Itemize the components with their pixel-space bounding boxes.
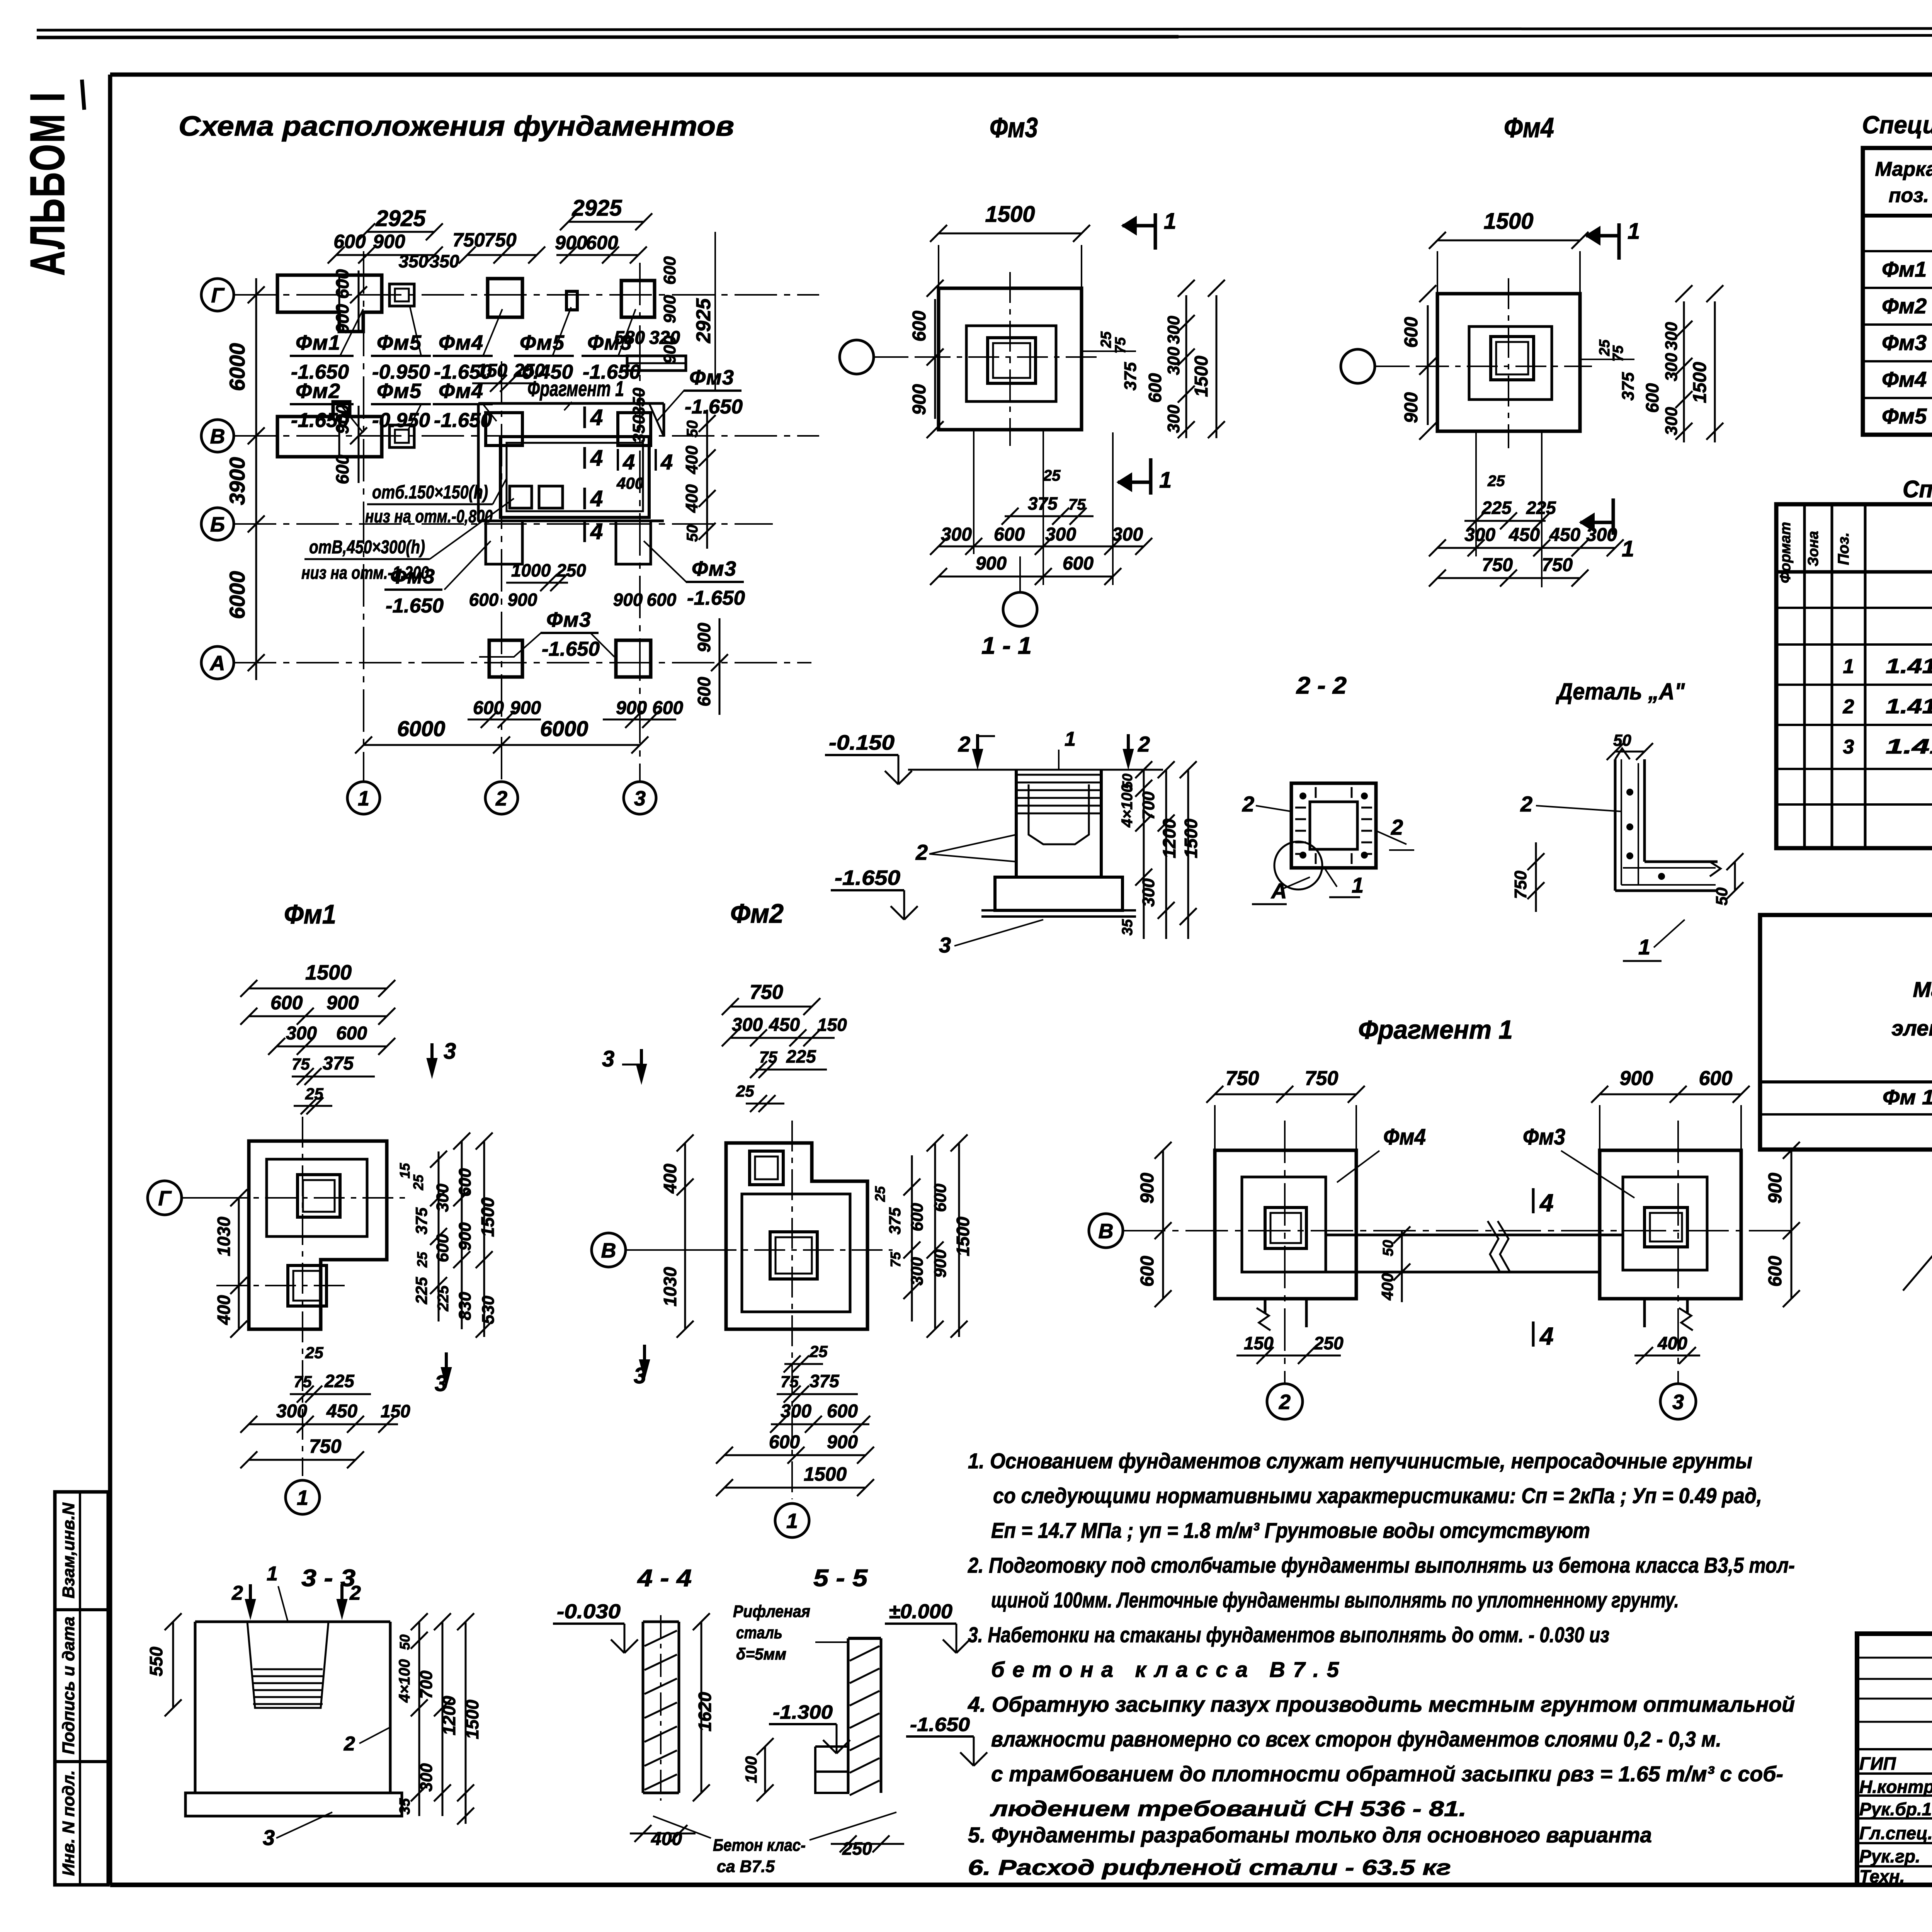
svg-text:530: 530	[479, 1296, 498, 1324]
plan bottom dim 6000 6000	[355, 716, 648, 753]
svg-text:са В7.5: са В7.5	[717, 1857, 775, 1876]
svg-text:6000: 6000	[225, 343, 249, 391]
svg-text:Н.контр.: Н.контр.	[1859, 1777, 1932, 1797]
svg-text:Фм3: Фм3	[546, 608, 591, 631]
svg-text:750: 750	[1482, 555, 1513, 575]
fragment left foundation Фм4	[1215, 1150, 1356, 1299]
Фм2 axis В circle	[592, 1233, 724, 1267]
svg-text:6000: 6000	[225, 571, 249, 619]
svg-text:-1.650: -1.650	[434, 409, 492, 432]
section marks 2	[958, 732, 995, 767]
svg-text:225: 225	[435, 1285, 452, 1311]
svg-text:900: 900	[660, 295, 679, 323]
svg-text:Поз.: Поз.	[1835, 532, 1852, 565]
svg-text:Фм1: Фм1	[284, 899, 336, 929]
axis 1	[347, 251, 380, 814]
svg-text:375: 375	[810, 1371, 840, 1391]
svg-text:600: 600	[1765, 1256, 1786, 1287]
svg-text:75: 75	[294, 1372, 312, 1391]
svg-text:400: 400	[682, 484, 701, 513]
svg-text:1. Основанием фундаментов сл: 1. Основанием фундаментов служат непучин…	[968, 1449, 1752, 1473]
svg-text:Фм1: Фм1	[1882, 257, 1927, 281]
svg-text:Подпись и дата: Подпись и дата	[59, 1617, 78, 1755]
fragment right foundation Фм3	[1600, 1150, 1741, 1299]
title Схема расположения фундаментов	[179, 111, 734, 142]
svg-text:1500: 1500	[305, 961, 352, 984]
svg-text:2: 2	[349, 1582, 361, 1604]
svg-text:3: 3	[263, 1825, 275, 1850]
svg-text:225: 225	[412, 1277, 430, 1304]
svg-text:А: А	[1270, 879, 1287, 903]
row А columns	[489, 640, 651, 677]
svg-text:50: 50	[684, 420, 701, 438]
fragment 14 marks	[1533, 1188, 1554, 1217]
Фм3 nested squares	[920, 272, 1101, 446]
Фм3 labels around fragment	[657, 366, 743, 421]
svg-text:Деталь „А": Деталь „А"	[1555, 679, 1685, 704]
svg-text:300: 300	[908, 1257, 927, 1286]
svg-text:2: 2	[1242, 792, 1254, 816]
svg-text:300: 300	[1045, 524, 1076, 545]
svg-text:элемента: элемента	[1891, 1016, 1932, 1040]
svg-text:900: 900	[508, 590, 537, 610]
label Фм3 (detail title)	[990, 112, 1038, 143]
Фм4 foundation detail	[1341, 209, 1723, 587]
svg-text:300: 300	[1164, 405, 1183, 433]
svg-text:600: 600	[333, 231, 366, 252]
svg-text:1500: 1500	[985, 202, 1035, 227]
svg-text:750: 750	[1226, 1067, 1259, 1090]
svg-text:25: 25	[1043, 467, 1061, 484]
svg-text:с трамбованием до плотности: с трамбованием до плотности обратной зас…	[991, 1762, 1783, 1786]
svg-text:600: 600	[827, 1401, 858, 1422]
svg-text:600: 600	[1699, 1067, 1733, 1090]
svg-text:900: 900	[456, 1222, 474, 1251]
dim 150 250 above fragment	[472, 361, 545, 392]
svg-text:Фм3: Фм3	[689, 366, 734, 389]
svg-text:-1.650: -1.650	[542, 638, 600, 660]
Фм4 nested squares	[1418, 278, 1592, 448]
svg-text:375: 375	[1121, 362, 1140, 391]
svg-text:Фм2: Фм2	[1882, 294, 1927, 318]
svg-text:2: 2	[958, 732, 970, 756]
svg-text:600: 600	[332, 269, 352, 299]
svg-text:1: 1	[1622, 536, 1634, 561]
svg-text:250: 250	[556, 560, 586, 580]
svg-text:1000: 1000	[511, 560, 551, 580]
svg-text:Техн.: Техн.	[1859, 1866, 1905, 1886]
svg-text:300: 300	[941, 524, 972, 545]
svg-text:700: 700	[1139, 791, 1158, 820]
svg-text:2: 2	[1520, 792, 1532, 816]
svg-text:2: 2	[344, 1733, 355, 1755]
svg-text:900: 900	[1401, 392, 1422, 423]
svg-text:Фм5: Фм5	[1882, 404, 1927, 428]
foundation layout plan	[201, 196, 819, 814]
svg-text:5 - 5: 5 - 5	[813, 1565, 868, 1592]
svg-text:А: А	[209, 651, 225, 675]
svg-text:низ на отм.-0,800: низ на отм.-0,800	[365, 506, 493, 526]
svg-text:25: 25	[809, 1342, 828, 1361]
svg-text:250: 250	[842, 1838, 872, 1859]
svg-text:75: 75	[888, 1252, 903, 1267]
svg-text:4: 4	[1539, 1322, 1554, 1350]
svg-text:750: 750	[484, 229, 517, 251]
svg-text:1500: 1500	[1483, 209, 1533, 234]
svg-text:1: 1	[786, 1509, 798, 1532]
svg-text:900: 900	[909, 384, 930, 415]
svg-text:75: 75	[292, 1055, 310, 1073]
title block	[1857, 1634, 1932, 1905]
svg-text:2 - 2: 2 - 2	[1296, 672, 1347, 699]
svg-text:Рифленая: Рифленая	[733, 1602, 810, 1621]
svg-text:300: 300	[1662, 407, 1681, 435]
section 1-1	[825, 556, 1201, 957]
svg-text:Фм4: Фм4	[1504, 112, 1554, 143]
svg-text:600: 600	[270, 992, 303, 1014]
Фм2 foundation detail	[592, 898, 973, 1537]
svg-text:250: 250	[1313, 1333, 1344, 1353]
svg-text:Спецификация фундаментов Фм: Спецификация фундаментов Фм 1 ÷ Фм 4	[1903, 476, 1932, 503]
svg-text:Фм4: Фм4	[1882, 367, 1927, 391]
svg-text:750: 750	[1305, 1067, 1338, 1090]
svg-text:Фм3: Фм3	[587, 331, 632, 354]
svg-text:2: 2	[495, 787, 507, 810]
svg-text:600: 600	[769, 1432, 800, 1452]
svg-text:900: 900	[1620, 1067, 1653, 1090]
fragment right dims 900 600	[1765, 1142, 1800, 1307]
svg-text:1.410-3 вып. 1: 1.410-3 вып. 1	[1886, 735, 1932, 758]
Фм1 left dim 1030 400	[214, 1189, 247, 1338]
section 3-3	[146, 1563, 482, 1850]
svg-text:900: 900	[616, 698, 647, 718]
svg-text:900: 900	[555, 232, 587, 253]
plan left rotated dims	[332, 269, 367, 484]
fragment bottom dims 150 250 400	[1236, 1333, 1344, 1364]
label 1-1	[981, 633, 1032, 659]
svg-text:2: 2	[1138, 732, 1150, 756]
dim 1000 250	[506, 560, 586, 591]
svg-text:В: В	[1099, 1219, 1114, 1243]
svg-text:900: 900	[332, 404, 352, 434]
axis Б	[201, 508, 773, 540]
svg-text:Зона: Зона	[1805, 531, 1821, 566]
svg-text:-0.150: -0.150	[829, 731, 895, 754]
svg-text:Марка,: Марка,	[1875, 158, 1932, 180]
svg-text:600: 600	[332, 454, 352, 484]
axis circle below Фм3	[1003, 556, 1037, 626]
svg-text:750: 750	[452, 229, 485, 251]
svg-text:900: 900	[660, 335, 679, 364]
svg-text:3: 3	[602, 1046, 614, 1071]
svg-text:25: 25	[414, 1252, 430, 1268]
svg-text:-1.650: -1.650	[687, 587, 745, 609]
fragment axis 3	[1660, 1121, 1696, 1419]
svg-text:2: 2	[915, 840, 928, 864]
svg-text:100: 100	[742, 1756, 760, 1783]
svg-text:600: 600	[1145, 373, 1165, 403]
svg-text:людением требований СН 536: людением требований СН 536 - 81.	[990, 1796, 1466, 1821]
svg-text:Фм5: Фм5	[377, 379, 422, 403]
Фм1 plan shape (row Г)	[277, 275, 382, 332]
svg-text:2: 2	[1391, 815, 1403, 839]
svg-text:±0.000: ±0.000	[889, 1600, 952, 1623]
svg-text:1500: 1500	[478, 1197, 498, 1237]
svg-text:600: 600	[469, 590, 499, 610]
label Фм4 (detail title)	[1504, 112, 1554, 143]
svg-text:450: 450	[1549, 525, 1580, 545]
axis circle Фм3	[840, 340, 939, 374]
svg-text:Фрагмент 1: Фрагмент 1	[1358, 1015, 1513, 1044]
svg-text:-1.650: -1.650	[835, 866, 900, 889]
axis circle Фм4	[1341, 349, 1437, 383]
Фм4 section mark 1 bottom	[1580, 498, 1634, 561]
svg-text:поз.: поз.	[1889, 184, 1929, 207]
fragment labels Фм4 Фм3	[1337, 1124, 1426, 1182]
Фм2 top dims	[722, 981, 847, 1112]
svg-text:1620: 1620	[695, 1692, 715, 1731]
svg-text:300: 300	[1464, 525, 1495, 545]
hatched element 580x320	[614, 328, 686, 443]
svg-text:1: 1	[267, 1563, 278, 1585]
fragment top dims	[1206, 1067, 1750, 1150]
table Спецификация фундаментов	[1776, 504, 1932, 848]
svg-text:400: 400	[1378, 1273, 1396, 1301]
svg-text:2925: 2925	[571, 196, 622, 221]
axis Г	[201, 279, 819, 311]
svg-text:6. Расход рифленой стали: 6. Расход рифленой стали - 63.5 кг	[968, 1855, 1451, 1879]
Фм1 top dims	[240, 961, 395, 1114]
svg-text:900: 900	[931, 1249, 950, 1278]
svg-text:Фм1: Фм1	[296, 331, 340, 354]
svg-text:Г: Г	[158, 1187, 172, 1210]
svg-text:отВ,450×300(h): отВ,450×300(h)	[309, 537, 425, 558]
svg-text:Спецификация элементов к схеме: Спецификация элементов к схеме расположе…	[1862, 111, 1932, 139]
Фм3 section mark 1 top	[1122, 209, 1176, 250]
Фм1 axis Г circle	[148, 1181, 249, 1215]
svg-text:1200: 1200	[1159, 818, 1179, 858]
svg-text:2. Подготовку под столбчатые: 2. Подготовку под столбчатые фундаменты …	[968, 1553, 1795, 1577]
Фрагмент 1 drawing	[1089, 1015, 1800, 1419]
Фм1 foundation detail	[148, 899, 498, 1514]
Фм2 plan shape	[657, 1121, 893, 1499]
dims 600 900 row А	[468, 698, 683, 728]
svg-text:3 - 3: 3 - 3	[301, 1565, 355, 1592]
svg-text:1: 1	[297, 1486, 308, 1509]
svg-text:600: 600	[660, 256, 679, 285]
table Спецификация элементов title	[1862, 111, 1932, 139]
svg-text:3. Набетонки на стаканы фун: 3. Набетонки на стаканы фундаментов выпо…	[968, 1622, 1609, 1647]
plan left dim chain 6000 3900 6000	[225, 278, 265, 680]
svg-text:2925: 2925	[375, 206, 426, 231]
Фм3 dim 1500 top	[930, 202, 1090, 288]
svg-text:400: 400	[651, 1829, 682, 1849]
Деталь А	[1511, 679, 1743, 961]
Фм3 plan square row Г	[621, 281, 655, 317]
svg-text:2: 2	[1843, 696, 1854, 718]
svg-text:АЛЬБОМ I: АЛЬБОМ I	[20, 91, 75, 276]
fragment mid dims 50 400	[1378, 1226, 1410, 1302]
svg-text:600: 600	[908, 1203, 927, 1231]
svg-text:Формат: Формат	[1777, 522, 1794, 583]
fragment strip	[1257, 1221, 1693, 1330]
отв. labels	[365, 479, 506, 526]
axis 3	[624, 263, 656, 814]
svg-text:-1.300: -1.300	[773, 1701, 833, 1723]
svg-text:375: 375	[412, 1207, 430, 1235]
1-1 drawing	[831, 728, 1201, 957]
svg-text:4: 4	[622, 450, 635, 474]
svg-text:25: 25	[1487, 473, 1505, 490]
svg-text:600: 600	[1642, 383, 1662, 413]
svg-text:375: 375	[886, 1207, 904, 1235]
svg-text:1.412-1/77 вып. 3: 1.412-1/77 вып. 3	[1886, 695, 1932, 718]
svg-text:400: 400	[214, 1295, 234, 1325]
svg-text:225: 225	[1481, 498, 1512, 518]
vertical label АЛЬБОМ I	[20, 80, 84, 276]
svg-text:-1.650: -1.650	[910, 1714, 970, 1735]
svg-text:сталь: сталь	[736, 1623, 782, 1642]
svg-text:6000: 6000	[540, 716, 588, 741]
svg-text:600: 600	[1401, 317, 1422, 348]
svg-text:50: 50	[397, 1634, 413, 1650]
svg-text:4: 4	[590, 446, 603, 471]
svg-text:5. Фундаменты разработаны то: 5. Фундаменты разработаны только для осн…	[968, 1823, 1652, 1847]
svg-text:Взам,инв.N: Взам,инв.N	[59, 1502, 78, 1599]
svg-text:600: 600	[586, 232, 618, 253]
svg-text:3: 3	[634, 787, 646, 810]
svg-text:отб.150×150(h): отб.150×150(h)	[372, 482, 488, 503]
svg-text:1: 1	[1352, 873, 1364, 897]
svg-text:600: 600	[1063, 553, 1094, 574]
svg-text:350: 350	[399, 251, 429, 271]
svg-text:450: 450	[769, 1015, 800, 1035]
svg-text:1500: 1500	[953, 1216, 973, 1256]
svg-text:Фрагмент 1: Фрагмент 1	[527, 376, 624, 401]
svg-text:Фм5: Фм5	[377, 331, 422, 354]
svg-text:Рук.гр.: Рук.гр.	[1859, 1846, 1920, 1866]
Фм5 anchor element row Г	[389, 284, 414, 306]
2-2 drawing	[1242, 783, 1414, 904]
svg-text:900: 900	[827, 1432, 858, 1452]
Фм2 right dims	[872, 1134, 973, 1338]
svg-text:6000: 6000	[397, 716, 446, 741]
dims 600 900 row Б	[469, 590, 677, 610]
svg-text:1: 1	[1159, 468, 1172, 493]
svg-text:4: 4	[590, 519, 603, 544]
svg-text:750: 750	[1511, 871, 1530, 899]
svg-text:300: 300	[1139, 878, 1158, 907]
Фм1 plan shape	[216, 1117, 410, 1476]
table Спецификация фундаментов title	[1903, 476, 1932, 503]
svg-text:600: 600	[1137, 1256, 1158, 1287]
svg-text:4 - 4: 4 - 4	[637, 1565, 692, 1592]
svg-text:Г: Г	[211, 284, 225, 307]
svg-text:4. Обратную засыпку пазух п: 4. Обратную засыпку пазух производить ме…	[968, 1692, 1795, 1716]
svg-text:Фм4: Фм4	[439, 331, 483, 354]
svg-text:1: 1	[1638, 935, 1650, 959]
svg-text:3: 3	[1843, 736, 1854, 758]
svg-text:Схема расположения фундаментов: Схема расположения фундаментов	[179, 111, 734, 142]
Фм2 section marks 3	[602, 1046, 646, 1082]
Фм5 small square row Г	[566, 291, 577, 310]
axis А	[201, 646, 811, 679]
svg-text:-1.650: -1.650	[386, 595, 444, 617]
svg-text:150: 150	[381, 1401, 410, 1421]
svg-text:25: 25	[1098, 331, 1114, 348]
table Ведомость расхода стали	[1760, 915, 1932, 1150]
svg-text:400: 400	[616, 474, 644, 492]
svg-text:400: 400	[1657, 1333, 1687, 1353]
svg-text:900: 900	[373, 231, 405, 252]
svg-text:-1.650: -1.650	[685, 396, 743, 418]
Фм2 left dims 400 1030	[660, 1134, 694, 1338]
level -0.150	[825, 731, 912, 784]
svg-text:75: 75	[781, 1372, 799, 1391]
svg-text:Фм3: Фм3	[390, 565, 435, 588]
svg-text:В: В	[601, 1239, 616, 1262]
Фм4 left dims 600 900	[1401, 285, 1436, 440]
plan top dims 600 900 750 750 900 600 350 350	[328, 229, 647, 271]
svg-text:900: 900	[510, 698, 541, 718]
svg-text:600: 600	[456, 1168, 474, 1197]
svg-text:Фм2: Фм2	[730, 898, 784, 929]
svg-text:225: 225	[786, 1046, 816, 1066]
svg-text:2: 2	[1279, 1390, 1291, 1413]
svg-text:350: 350	[629, 415, 648, 443]
section 5-5	[653, 1565, 987, 1876]
svg-text:4: 4	[590, 405, 603, 430]
svg-text:1: 1	[1628, 219, 1640, 244]
svg-text:4×100: 4×100	[1119, 784, 1136, 828]
svg-text:щиной 100мм. Ленточные фунда: щиной 100мм. Ленточные фундаменты выполн…	[991, 1588, 1679, 1612]
left stamp strip	[55, 1492, 108, 1885]
svg-text:Фм3: Фм3	[1882, 330, 1927, 355]
svg-text:900: 900	[976, 553, 1007, 574]
svg-text:35: 35	[1119, 919, 1136, 935]
svg-text:1 - 1: 1 - 1	[981, 633, 1032, 659]
svg-text:450: 450	[326, 1401, 357, 1422]
axis 2	[485, 361, 518, 814]
svg-text:600: 600	[694, 677, 714, 706]
Фм1 axis 1 circle	[286, 1480, 320, 1514]
Фм4 section mark 1 top	[1586, 219, 1640, 260]
svg-text:1500: 1500	[804, 1463, 847, 1485]
svg-text:1: 1	[1843, 655, 1854, 678]
Фм2 axis 1 circle	[775, 1503, 809, 1537]
svg-text:300: 300	[276, 1401, 307, 1422]
svg-text:3: 3	[939, 933, 951, 957]
svg-text:350: 350	[430, 251, 459, 271]
Фм3 foundation detail	[840, 202, 1225, 585]
svg-text:1: 1	[1164, 209, 1176, 234]
Фм1 right dims	[397, 1133, 498, 1338]
Фм2 plan shape (row В)	[277, 402, 382, 457]
svg-text:900: 900	[1137, 1173, 1158, 1204]
Фм4 right dims	[1580, 285, 1723, 442]
svg-text:3: 3	[1672, 1390, 1684, 1413]
svg-text:Рук.бр.1: Рук.бр.1	[1859, 1799, 1932, 1819]
svg-text:600: 600	[909, 311, 930, 342]
14 marks in fragment strip	[585, 405, 603, 430]
svg-text:Фм3: Фм3	[1523, 1124, 1565, 1150]
svg-text:со следующими нормативными: со следующими нормативными характеристик…	[993, 1483, 1762, 1508]
svg-text:В: В	[210, 425, 225, 448]
svg-text:375: 375	[1619, 372, 1638, 401]
svg-text:25: 25	[410, 1174, 426, 1190]
svg-text:влажности равномерно со всех: влажности равномерно со всех сторон фунд…	[991, 1727, 1721, 1751]
plan top dims 2925	[358, 196, 652, 240]
